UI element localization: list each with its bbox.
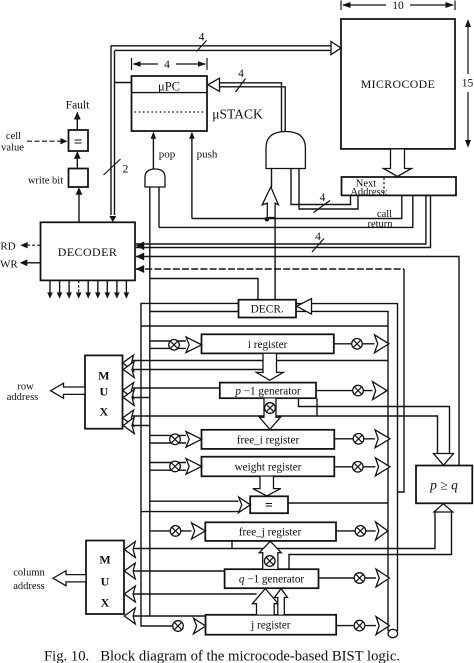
svg-text:value: value (1, 143, 24, 154)
svg-text:row: row (17, 382, 34, 393)
svg-text:M: M (99, 553, 110, 567)
svg-text:X: X (99, 405, 108, 419)
svg-text:U: U (99, 385, 108, 399)
svg-text:j register: j register (250, 620, 291, 632)
svg-text:U: U (101, 575, 110, 589)
svg-text:4: 4 (199, 32, 205, 44)
svg-text:address: address (13, 581, 45, 592)
svg-text:MICROCODE: MICROCODE (361, 77, 435, 91)
svg-text:p −1 generator: p −1 generator (234, 386, 301, 398)
svg-text:i register: i register (248, 339, 288, 351)
svg-text:return: return (367, 219, 393, 230)
svg-text:=: = (74, 135, 83, 151)
svg-text:column: column (13, 568, 45, 579)
svg-text:p ≥ q: p ≥ q (429, 478, 458, 493)
svg-text:pop: pop (159, 149, 176, 161)
svg-text:4: 4 (164, 59, 170, 71)
svg-text:write bit: write bit (28, 176, 63, 187)
svg-text:=: = (265, 498, 273, 513)
svg-text:weight register: weight register (235, 462, 302, 474)
svg-text:M: M (98, 369, 109, 383)
svg-text:15: 15 (462, 78, 474, 90)
svg-text:DECR.: DECR. (251, 304, 284, 316)
svg-text:μPC: μPC (158, 80, 180, 94)
svg-text:Fig. 10. Block diagram of th: Fig. 10. Block diagram of the microcode-… (44, 648, 400, 663)
svg-text:μSTACK: μSTACK (212, 107, 263, 122)
svg-text:4: 4 (320, 192, 326, 204)
svg-text:free_j register: free_j register (239, 527, 302, 539)
svg-text:2: 2 (123, 164, 129, 176)
svg-text:10: 10 (392, 0, 404, 12)
svg-text:DECODER: DECODER (58, 245, 117, 259)
svg-text:Address:: Address: (350, 187, 387, 198)
svg-text:address: address (7, 392, 39, 403)
svg-text:push: push (197, 149, 218, 161)
svg-text:4: 4 (315, 231, 321, 243)
svg-text:q −1 generator: q −1 generator (239, 574, 305, 586)
svg-text:RD: RD (0, 241, 15, 253)
svg-text:X: X (101, 596, 110, 610)
svg-text:free_i register: free_i register (237, 435, 300, 447)
svg-text:cell: cell (6, 131, 21, 142)
svg-text:WR: WR (0, 259, 18, 271)
svg-text:Fault: Fault (66, 100, 90, 112)
svg-text:4: 4 (238, 68, 244, 80)
